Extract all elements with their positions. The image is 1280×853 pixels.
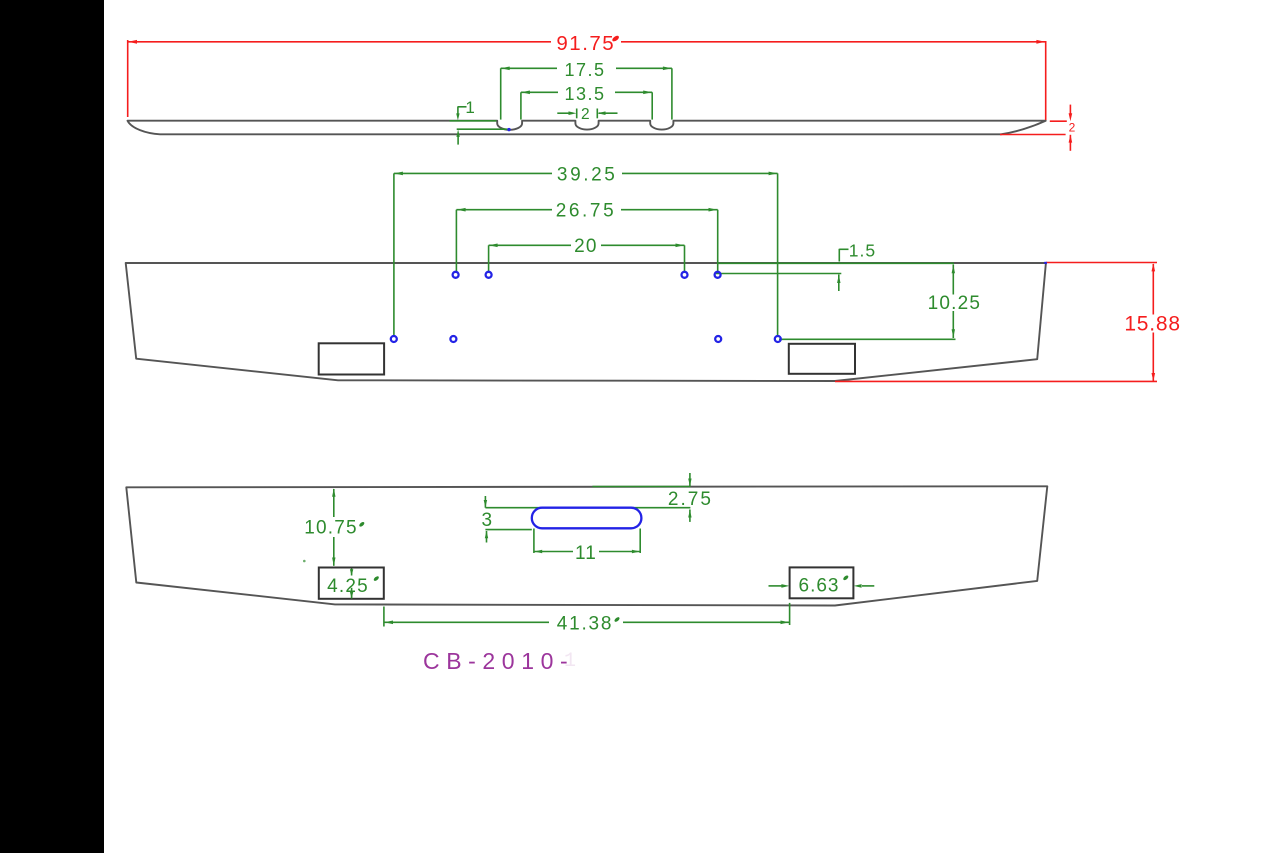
svg-text:91.75: 91.75: [556, 32, 615, 55]
svg-text:1: 1: [564, 650, 576, 673]
svg-text:2.75: 2.75: [668, 489, 713, 510]
svg-text:4.25: 4.25: [327, 576, 369, 597]
svg-text:6.63: 6.63: [799, 576, 840, 597]
svg-text:41.38: 41.38: [557, 614, 614, 635]
svg-text:CB-2010-: CB-2010-: [423, 648, 574, 674]
svg-text:2: 2: [1069, 121, 1076, 135]
svg-text:10.25: 10.25: [928, 293, 982, 314]
svg-text:3: 3: [482, 510, 493, 531]
svg-text:15.88: 15.88: [1124, 313, 1181, 336]
svg-text:17.5: 17.5: [564, 60, 605, 80]
svg-text:1.5: 1.5: [849, 240, 876, 260]
svg-text:2: 2: [581, 106, 590, 123]
svg-text:11: 11: [575, 543, 597, 564]
svg-text:26.75: 26.75: [556, 201, 617, 222]
svg-text:10.75: 10.75: [304, 518, 358, 539]
svg-text:20: 20: [574, 236, 598, 257]
svg-text:1: 1: [465, 98, 474, 117]
svg-text:13.5: 13.5: [564, 84, 605, 104]
svg-text:39.25: 39.25: [557, 164, 618, 185]
